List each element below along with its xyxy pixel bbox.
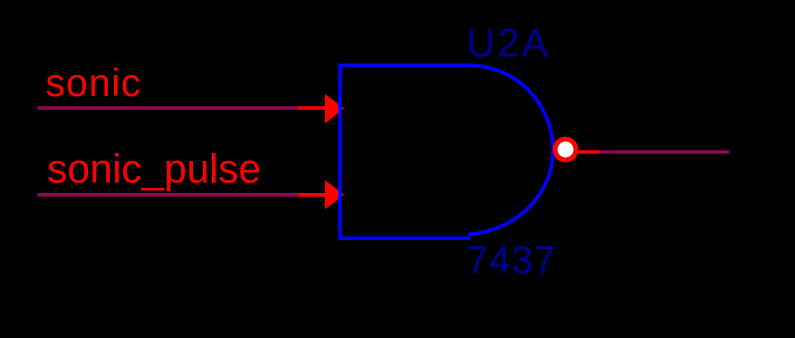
svg-text:sonic_pulse: sonic_pulse (47, 145, 261, 191)
svg-text:7437: 7437 (467, 239, 557, 282)
wire output net segment (599, 150, 729, 154)
pin arrowhead input 2 (325, 180, 344, 209)
wire sonic_pulse pin stub (red) (298, 193, 327, 197)
svg-text:sonic: sonic (46, 62, 142, 105)
NAND gate U2A body outline (340, 65, 553, 238)
wire sonic pin stub (red) (298, 106, 327, 110)
wire sonic_pulse net segment (38, 193, 298, 197)
svg-text:U2A: U2A (466, 21, 550, 65)
wire sonic net segment (38, 106, 298, 110)
inversion bubble (555, 139, 576, 160)
output pin stub (red) (578, 150, 600, 154)
pin arrowhead input 1 (325, 94, 344, 124)
